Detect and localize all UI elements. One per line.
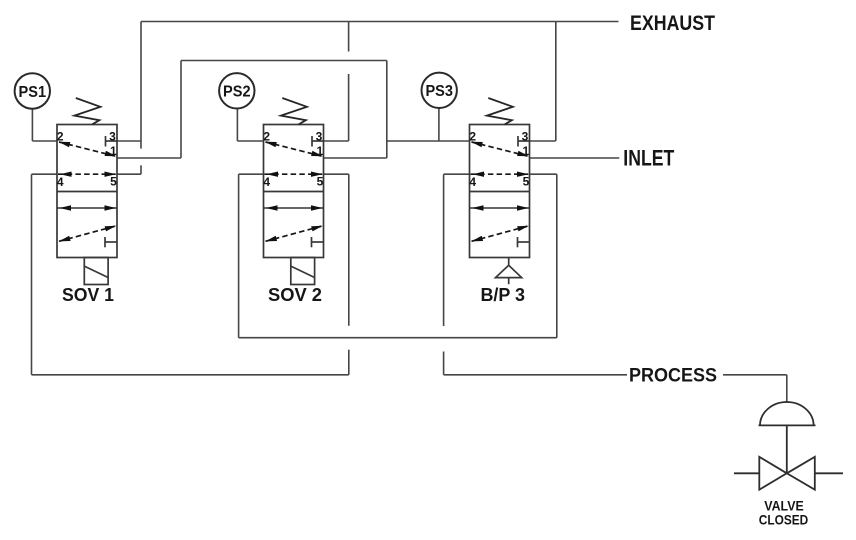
svg-text:3: 3 [522, 129, 529, 143]
wire EXHAUST header [141, 21, 619, 23]
B/P3 diagonal passage (bottom position) [471, 226, 529, 242]
svg-text:5: 5 [317, 174, 324, 188]
svg-text:PS1: PS1 [19, 84, 47, 101]
SOV1 port 3 blocked (tee) [106, 136, 118, 147]
control valve diaphragm actuator [759, 402, 816, 425]
SOV1 ports 4-5 passage (top position) [58, 172, 116, 177]
svg-text:B/P 3: B/P 3 [480, 284, 525, 305]
wire SOV1 port 3 to exhaust drop [117, 140, 141, 142]
B/P3 ports 4-5 passage (top position) [471, 172, 529, 177]
svg-text:PS3: PS3 [425, 83, 453, 100]
wire EXHAUST drop to B/P3 port 3 [555, 22, 557, 142]
pressure switch PS3 [422, 73, 457, 108]
B/P3 flow path port1-port2 (top position) [471, 142, 529, 157]
svg-text:2: 2 [57, 129, 64, 143]
SOV2 port 3 blocked (tee) [312, 136, 324, 147]
B/P3 port 3 blocked (tee) [518, 136, 530, 147]
SOV1 solenoid actuator [84, 258, 108, 285]
SOV1 diagonal passage (bottom position) [59, 226, 117, 242]
wire SOV2 port 3 stub [324, 140, 349, 142]
pressure switch PS1 [15, 73, 50, 108]
SOV2 pin numbers 2 3 1 4 5 [263, 129, 323, 188]
control valve line stubs [734, 472, 843, 474]
SOV2 ports 4-5 passage (top position) [265, 172, 323, 177]
valve SOV1 body [57, 125, 117, 258]
wire B/P3 port 4 drop to PROCESS (break at crossing) [443, 174, 445, 375]
svg-text:INLET: INLET [623, 145, 674, 170]
svg-text:SOV 1: SOV 1 [62, 284, 114, 305]
SOV2 blocked port (bottom position tee) [312, 237, 324, 247]
SOV2 flow path port1-port2 (top position) [265, 142, 323, 157]
wire drop to SOV1 port 1 [117, 61, 181, 159]
svg-text:PROCESS: PROCESS [629, 365, 717, 387]
wire SOV2 port 4 drop [238, 174, 240, 338]
svg-text:CLOSED: CLOSED [759, 512, 809, 528]
wire EXHAUST drop to SOV1 ports 3 and 5 [140, 22, 142, 175]
svg-text:PS2: PS2 [223, 84, 251, 101]
SOV1 pin numbers 2 3 1 4 5 [57, 129, 117, 188]
svg-text:5: 5 [110, 174, 117, 188]
wire SOV1 port 5 to exhaust drop [117, 173, 141, 175]
wire SOV2 port 4 stub [239, 173, 264, 175]
SOV2 ports passage (bottom position) [264, 205, 324, 210]
svg-text:4: 4 [57, 175, 64, 189]
wire riser to SOV2 port 5 (break at crossing) [348, 174, 350, 375]
wire PS1 drop to SOV1 port 2 [32, 109, 57, 141]
svg-text:2: 2 [469, 129, 476, 143]
svg-text:2: 2 [263, 129, 270, 143]
B/P3 ports passage (bottom position) [470, 205, 530, 210]
wire B/P3 port 3 stub [530, 140, 556, 142]
svg-text:4: 4 [469, 175, 476, 189]
SOV1 blocked port (bottom position tee) [105, 237, 117, 247]
wire header SOV1 port1 to SOV2 port1 [181, 60, 387, 62]
SOV1 ports passage (bottom position) [57, 205, 117, 210]
wire riser to B/P3 port 5 [556, 174, 558, 338]
wire PS2 drop to SOV2 port 2 [237, 108, 263, 141]
svg-text:1: 1 [110, 144, 117, 158]
wire SOV2 port 5 stub [324, 173, 349, 175]
valve B/P3 body [470, 125, 530, 258]
svg-text:EXHAUST: EXHAUST [630, 12, 715, 35]
svg-text:1: 1 [317, 144, 324, 158]
wire SOV1 port 4 down left side [32, 174, 58, 375]
SOV1 return spring [74, 98, 100, 125]
wire SOV2 port4 to B/P3 port5 run [239, 337, 557, 339]
SOV1 flow path port1-port2 (top position) [59, 142, 117, 157]
SOV2 diagonal passage (bottom position) [265, 226, 323, 242]
SOV2 return spring [281, 98, 307, 125]
B/P3 blocked port (bottom position tee) [518, 237, 530, 247]
wire EXHAUST drop to SOV2 port 3 (break at crossing) [348, 22, 350, 142]
control valve stem [786, 425, 788, 473]
wire B/P3 port 2 to PS3 net (tee at drop) [387, 140, 470, 142]
wire lower-left run to SOV2 port 5 [32, 374, 349, 376]
svg-text:5: 5 [523, 174, 530, 188]
B/P3 pilot actuator [496, 258, 522, 285]
wire B/P3 port 5 stub [530, 173, 557, 175]
svg-text:3: 3 [316, 129, 323, 143]
SOV2 solenoid actuator [291, 258, 315, 285]
wire PS3 drop [438, 108, 440, 141]
wire INLET to B/P3 port 1 [530, 157, 620, 159]
control valve body (gate) [759, 457, 815, 490]
pressure switch PS2 [219, 73, 254, 108]
value label VALVE CLOSED [759, 498, 809, 528]
wire B/P3 port 4 stub [444, 173, 470, 175]
wire PROCESS label to control valve [723, 375, 787, 402]
B/P3 pin numbers 2 3 1 4 5 [469, 129, 529, 188]
svg-text:1: 1 [523, 144, 530, 158]
svg-text:3: 3 [109, 129, 116, 143]
valve SOV2 body [264, 125, 324, 258]
B/P3 return spring [487, 98, 513, 125]
wire drop to SOV2 port 1 [324, 61, 387, 159]
svg-text:SOV 2: SOV 2 [268, 284, 322, 305]
svg-text:4: 4 [263, 175, 270, 189]
wire PROCESS run to label [444, 374, 627, 376]
